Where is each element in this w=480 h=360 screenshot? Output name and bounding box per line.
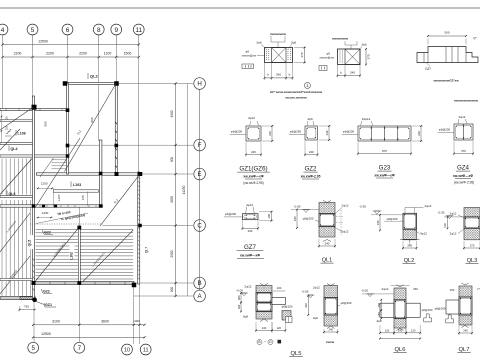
svg-text:5φ8: 5φ8 bbox=[243, 315, 248, 319]
leader GZ1 bbox=[36, 302, 44, 305]
svg-text:300: 300 bbox=[304, 303, 308, 308]
svg-text:QL6: QL6 bbox=[395, 347, 406, 353]
svg-text:G22: G22 bbox=[44, 231, 51, 235]
svg-text:2φ12: 2φ12 bbox=[342, 204, 349, 208]
label L102 bbox=[70, 245, 75, 258]
beam GZ1 bottom left bbox=[0, 297, 35, 299]
svg-text:3φ12: 3φ12 bbox=[420, 232, 427, 236]
grid line E right bbox=[140, 173, 193, 175]
plan right outer line bbox=[187, 84, 189, 297]
detail GZ wall cast right bbox=[338, 49, 361, 65]
QL6 masonry bottom bbox=[394, 319, 406, 328]
svg-text:(xw.xwΦ-2.95): (xw.xwΦ-2.95) bbox=[243, 181, 263, 185]
QL3 masonry bottom bbox=[464, 228, 480, 240]
dim line detail1b bbox=[338, 75, 361, 77]
svg-text:4φ12: 4φ12 bbox=[459, 115, 466, 119]
column on beam 206 a bbox=[42, 204, 45, 207]
grid stem to bubble 10 bbox=[133, 286, 135, 344]
svg-text:240: 240 bbox=[248, 229, 253, 233]
svg-text:φ6@200: φ6@200 bbox=[343, 130, 355, 134]
QL5R beam bbox=[324, 298, 338, 316]
svg-text:2φ12: 2φ12 bbox=[342, 230, 349, 234]
level mark bbox=[366, 294, 374, 297]
svg-text:L107: L107 bbox=[57, 194, 61, 201]
grid stem 4 bbox=[2, 35, 4, 45]
svg-text:φ6@200: φ6@200 bbox=[303, 217, 314, 221]
column at F/6 bbox=[66, 144, 70, 148]
dashed line y224 bbox=[30, 223, 103, 225]
left strip beam y120 bbox=[0, 120, 34, 122]
diagonal lower room a bbox=[36, 228, 79, 281]
diagonal left strip c bbox=[0, 256, 30, 294]
svg-text:2φ6: 2φ6 bbox=[361, 43, 367, 47]
svg-text:11: 11 bbox=[135, 27, 142, 34]
svg-text:xw.xwΦ—xΦ: xw.xwΦ—xΦ bbox=[243, 175, 263, 179]
QL5L masonry top bbox=[256, 286, 272, 293]
svg-text:11: 11 bbox=[143, 347, 149, 353]
svg-text:2φ6: 2φ6 bbox=[256, 41, 262, 45]
stair flight segment bbox=[40, 158, 54, 177]
column at F/9 bbox=[115, 144, 119, 148]
svg-text:900: 900 bbox=[90, 117, 94, 122]
grid bubble 5 bottom bbox=[28, 342, 39, 353]
QL6 left wing bbox=[380, 303, 394, 317]
beam left strip y279 bbox=[0, 279, 34, 281]
column at 8 stair bbox=[99, 204, 103, 208]
svg-text:QL5: QL5 bbox=[28, 240, 32, 247]
svg-text:165: 165 bbox=[81, 195, 85, 200]
grid bubble 4 top bbox=[0, 24, 8, 35]
wall grid 8 bbox=[99, 140, 102, 207]
svg-text:QL7: QL7 bbox=[459, 347, 470, 353]
column at E/9 bbox=[115, 172, 119, 176]
stair diagonal upper flight bbox=[65, 83, 117, 172]
QL6 dim total bbox=[380, 338, 420, 340]
svg-text:QL5: QL5 bbox=[291, 351, 302, 357]
svg-text:240: 240 bbox=[398, 328, 403, 332]
svg-text:3450: 3450 bbox=[170, 196, 174, 203]
svg-text:240: 240 bbox=[350, 71, 355, 75]
QL7 masonry top bbox=[459, 286, 472, 297]
small diagonal left strip bbox=[0, 129, 20, 150]
grid bubble 6 top bbox=[62, 24, 73, 35]
svg-text:2φ12: 2φ12 bbox=[245, 285, 252, 289]
svg-text:GZ7: GZ7 bbox=[244, 244, 257, 251]
svg-text:L106: L106 bbox=[18, 132, 26, 136]
svg-text:xw.xwΦ-2.95: xw.xwΦ-2.95 bbox=[301, 175, 321, 179]
bottom dim line segments bbox=[33, 324, 144, 326]
QL1 masonry top bbox=[319, 203, 335, 214]
svg-text:GZ1(GZ6): GZ1(GZ6) bbox=[239, 166, 267, 173]
grid stem 5 bbox=[32, 35, 34, 45]
grid line F bbox=[69, 144, 194, 146]
svg-text:G23: G23 bbox=[379, 165, 391, 172]
grid stem to bubble 5 bottom bbox=[33, 300, 35, 343]
QL5L small detail bbox=[286, 317, 293, 323]
dim 500 line bbox=[428, 35, 466, 37]
beam QL6 left strip bbox=[0, 195, 34, 197]
GZ cross bbox=[272, 48, 287, 63]
QL6 masonry top bbox=[394, 288, 406, 300]
rebar dashes left cell bbox=[267, 49, 291, 61]
svg-text:QL7: QL7 bbox=[145, 247, 149, 254]
section GZ2 bbox=[305, 126, 318, 140]
grid bubble 8 top bbox=[93, 24, 104, 35]
svg-text:QL2: QL2 bbox=[90, 74, 99, 79]
svg-text:GZ*: GZ* bbox=[425, 67, 431, 71]
column at C/7 bbox=[77, 226, 81, 230]
svg-text:10φ12: 10φ12 bbox=[362, 117, 371, 121]
level mark bbox=[307, 295, 315, 298]
column at H/6 bbox=[63, 81, 68, 86]
svg-text:240: 240 bbox=[407, 244, 412, 248]
sheet top border bbox=[0, 7, 480, 9]
svg-text:160: 160 bbox=[377, 312, 381, 317]
svg-text:160: 160 bbox=[237, 304, 241, 309]
svg-text:~: ~ bbox=[264, 340, 266, 344]
beam on line E bbox=[37, 173, 141, 175]
svg-text:φ6@200: φ6@200 bbox=[282, 305, 293, 309]
QL2 masonry bottom bbox=[403, 229, 417, 240]
svg-text:150: 150 bbox=[5, 125, 9, 130]
svg-text:370: 370 bbox=[300, 52, 304, 57]
grid bubble A bbox=[194, 290, 206, 302]
svg-text:(xw.xwΦ-2.95): (xw.xwΦ-2.95) bbox=[454, 181, 474, 185]
svg-text:φ6@200: φ6@200 bbox=[439, 128, 451, 132]
svg-text:7: 7 bbox=[78, 345, 82, 352]
svg-text:1230: 1230 bbox=[42, 211, 49, 215]
column GZ1 dot bbox=[32, 298, 37, 303]
grid stem 9 bbox=[115, 35, 117, 45]
wall hatch ticks grid 9 bbox=[115, 122, 117, 168]
svg-text:2900: 2900 bbox=[170, 250, 174, 257]
QL5R masonry bottom bbox=[324, 315, 338, 326]
beam QL2 on line H bbox=[65, 83, 118, 85]
svg-text:150: 150 bbox=[413, 287, 418, 291]
svg-text:3100: 3100 bbox=[52, 319, 60, 323]
bottom dim line total bbox=[33, 336, 144, 338]
svg-text:φ6@200: φ6@200 bbox=[225, 212, 237, 216]
svg-text:GZ1: GZ1 bbox=[45, 303, 52, 307]
svg-text:6: 6 bbox=[66, 27, 70, 34]
svg-text:14250: 14250 bbox=[182, 185, 186, 194]
svg-text:950: 950 bbox=[237, 295, 241, 300]
svg-text:2φ6: 2φ6 bbox=[313, 316, 318, 320]
dim line segments top bbox=[3, 56, 139, 58]
svg-text:9: 9 bbox=[114, 27, 118, 34]
QL5L beam upper bbox=[256, 293, 272, 303]
svg-text:240: 240 bbox=[309, 150, 314, 154]
svg-text:2100: 2100 bbox=[14, 52, 22, 56]
grid bubble 11 top bbox=[133, 24, 144, 35]
grid bubble H bbox=[194, 78, 206, 90]
svg-text:150: 150 bbox=[450, 288, 455, 292]
grid line 8 upper bbox=[98, 45, 100, 142]
QL7 beam bbox=[459, 297, 472, 315]
section GZ4 bbox=[454, 124, 473, 140]
leader GZ4 bbox=[438, 132, 454, 134]
svg-text:900: 900 bbox=[170, 287, 174, 293]
svg-text:2φ12: 2φ12 bbox=[313, 286, 320, 290]
svg-text:QL6: QL6 bbox=[9, 192, 16, 196]
detail lintel top right bbox=[417, 47, 478, 63]
tiny step glyph bbox=[6, 129, 11, 133]
svg-text:2200: 2200 bbox=[46, 52, 54, 56]
wall grid 5 bbox=[33, 96, 35, 300]
svg-text:12500: 12500 bbox=[38, 40, 48, 44]
stair note leader bbox=[36, 213, 88, 224]
leader G21 bbox=[230, 134, 246, 136]
beam L102 grid 7 bbox=[78, 227, 80, 283]
column at H/9 bbox=[114, 81, 119, 86]
svg-text:xw.xwΦ—xΦ: xw.xwΦ—xΦ bbox=[453, 174, 473, 178]
svg-text:180: 180 bbox=[293, 216, 297, 221]
svg-text:φ6@200: φ6@200 bbox=[387, 217, 398, 221]
QL2 beam bbox=[403, 213, 417, 229]
svg-text:5: 5 bbox=[31, 27, 35, 34]
level mark bbox=[373, 211, 382, 214]
wall grid 6 bbox=[67, 83, 69, 174]
svg-text:G22: G22 bbox=[43, 290, 50, 294]
svg-text:L103: L103 bbox=[73, 183, 81, 187]
svg-text:4900: 4900 bbox=[170, 110, 174, 117]
bearing ticks on beam y110 bbox=[6, 109, 62, 111]
column at C/11 bbox=[138, 224, 142, 228]
stair diagonal top left bbox=[0, 107, 34, 130]
column at B/10 bbox=[132, 283, 137, 288]
svg-text:500: 500 bbox=[444, 31, 449, 35]
bearing ticks on beam B bbox=[50, 282, 125, 285]
svg-text:240: 240 bbox=[276, 72, 281, 76]
detail GZ wall cast left bbox=[265, 48, 293, 63]
beam below H left bbox=[0, 109, 68, 111]
QL6 beam bbox=[394, 300, 406, 319]
QL7 small tee detail bbox=[446, 315, 454, 323]
dim line detail1a bbox=[265, 77, 293, 79]
grid bubble B bbox=[194, 277, 206, 289]
joist hatch left strip lower bbox=[2, 200, 31, 296]
column at 6 bbox=[66, 154, 70, 158]
dim line 1200 bbox=[37, 187, 54, 189]
svg-text:900: 900 bbox=[170, 157, 174, 163]
svg-text:-0.05: -0.05 bbox=[302, 290, 309, 294]
svg-text:240: 240 bbox=[325, 242, 330, 246]
joist hatch room mid bbox=[52, 160, 67, 169]
svg-text:3600: 3600 bbox=[101, 319, 109, 323]
svg-text:φ6@200: φ6@200 bbox=[341, 301, 352, 305]
svg-text:100: 100 bbox=[267, 213, 271, 218]
column at 5 stair bbox=[32, 204, 36, 208]
diagonal left strip b bbox=[0, 213, 30, 252]
svg-text:xwxwxwxw: xwxwxwxw bbox=[270, 32, 287, 36]
level mark bbox=[302, 210, 310, 213]
left edge dim line bbox=[1, 110, 3, 143]
QL6 top bracket bbox=[391, 285, 410, 287]
section GZ7 bbox=[242, 214, 258, 220]
QL7 left wing bbox=[446, 300, 459, 314]
grid line 11 upper bbox=[138, 45, 140, 173]
QL3 masonry top bbox=[464, 208, 480, 217]
diagonal left strip a bbox=[0, 159, 32, 195]
svg-text:xwxwxwxw: xwxwxwxw bbox=[332, 37, 349, 41]
QL6 small tee detail bbox=[424, 314, 432, 322]
beam on F in plan bbox=[0, 142, 34, 144]
GZ cross b bbox=[345, 49, 360, 65]
svg-text:-0.35: -0.35 bbox=[359, 205, 366, 209]
svg-text:φ6@250: φ6@250 bbox=[290, 130, 302, 134]
svg-text:xwxwxwxwGZ*xw: xwxwxwxwGZ*xw bbox=[433, 79, 459, 83]
legend box left bbox=[242, 64, 254, 69]
QL5L masonry bottom bbox=[256, 312, 272, 320]
column at E/8 bbox=[99, 172, 103, 176]
QL3 beam bbox=[464, 217, 480, 228]
svg-text:2φ6: 2φ6 bbox=[291, 41, 297, 45]
grid stem 6 bbox=[67, 35, 69, 45]
QL5L step masonry bbox=[282, 311, 291, 321]
svg-text:B: B bbox=[258, 340, 260, 344]
svg-text:800: 800 bbox=[44, 121, 48, 126]
column on beam 206 b bbox=[54, 204, 57, 207]
svg-text:C: C bbox=[197, 223, 202, 230]
svg-text:φ6@200: φ6@200 bbox=[231, 130, 243, 134]
level mark bbox=[240, 293, 248, 296]
grid line H right bbox=[118, 83, 194, 85]
caption square glyph bbox=[278, 340, 282, 344]
QL7 break marks bbox=[462, 283, 469, 328]
dim line 165 bbox=[87, 192, 89, 207]
label QL5 backing bbox=[28, 235, 33, 249]
svg-text:H: H bbox=[197, 81, 201, 88]
legend box right bbox=[319, 66, 327, 71]
svg-text:100: 100 bbox=[443, 223, 447, 228]
svg-text:2φ12: 2φ12 bbox=[425, 204, 432, 208]
QL5L step slab bbox=[272, 298, 285, 305]
svg-text:xwxwx@xw: xwxwx@xw bbox=[320, 56, 335, 60]
svg-text:QL1: QL1 bbox=[322, 258, 333, 264]
grid line 6 upper bbox=[67, 45, 69, 85]
svg-text:12500: 12500 bbox=[41, 332, 51, 336]
svg-text:8: 8 bbox=[97, 27, 101, 34]
svg-text:-0.05: -0.05 bbox=[361, 289, 368, 293]
leader G23 bbox=[342, 134, 358, 136]
section GZ1(GZ6) bbox=[246, 126, 261, 141]
hatched beam segment bbox=[20, 296, 34, 299]
svg-text:1100: 1100 bbox=[104, 52, 112, 56]
svg-text:GZ* xwxw.xwxwxwxwGZ*xwxCxwxwxw: GZ* xwxw.xwxwxwxwGZ*xwxCxwxwxw bbox=[270, 90, 323, 94]
svg-text:φ6@200: φ6@200 bbox=[422, 308, 433, 312]
column at B/7 bbox=[77, 281, 81, 285]
svg-text:2φ12: 2φ12 bbox=[450, 211, 457, 215]
wall hatch ticks grid 5 bbox=[33, 258, 35, 291]
svg-text:2φ12: 2φ12 bbox=[382, 287, 389, 291]
svg-text:100: 100 bbox=[277, 286, 282, 290]
dim line L107 bbox=[52, 188, 54, 206]
grid bubble F bbox=[194, 139, 206, 151]
bearing ticks on beam y206 bbox=[40, 205, 96, 207]
svg-text:QL3: QL3 bbox=[467, 258, 478, 264]
QL1 masonry bottom bbox=[319, 227, 335, 238]
grid line B right bbox=[134, 282, 193, 284]
diagonal lower room b bbox=[81, 230, 133, 284]
QL5L beam lower bbox=[256, 303, 272, 312]
svg-text:B: B bbox=[198, 280, 202, 287]
svg-text:240: 240 bbox=[463, 329, 468, 333]
QL1 break marks bbox=[323, 201, 331, 242]
stair diagonal lower flight bbox=[36, 138, 81, 207]
svg-text:-0.05: -0.05 bbox=[294, 205, 301, 209]
svg-text:240: 240 bbox=[329, 328, 334, 332]
svg-text:750: 750 bbox=[24, 304, 29, 308]
circled 1 bbox=[304, 82, 310, 88]
tiny dim line bbox=[5, 135, 12, 137]
QL5R masonry top bbox=[324, 286, 338, 298]
svg-text:240: 240 bbox=[417, 131, 421, 136]
beam L103 bbox=[53, 190, 98, 192]
beam on line B bbox=[34, 282, 135, 284]
grid line 7 lower bbox=[78, 208, 80, 343]
svg-text:E: E bbox=[198, 171, 202, 178]
column at B/5 bbox=[32, 281, 36, 285]
grid line 4 bbox=[2, 45, 4, 111]
wall hatch ticks grid 11 bbox=[138, 177, 140, 279]
grid line 9 upper bbox=[115, 45, 117, 85]
QL6 right wing bbox=[406, 303, 420, 317]
right dim line vertical bbox=[175, 84, 177, 297]
svg-text:5: 5 bbox=[31, 345, 35, 352]
svg-text:120: 120 bbox=[411, 328, 416, 332]
dim line GZ7 bottom bbox=[242, 227, 258, 229]
QL7 masonry bottom bbox=[459, 315, 472, 325]
caption B-D circles bbox=[257, 340, 273, 345]
leader GZ7 bbox=[224, 216, 243, 218]
level mark bbox=[446, 216, 454, 219]
svg-text:370: 370 bbox=[461, 149, 466, 153]
svg-text:4φ8: 4φ8 bbox=[376, 319, 381, 323]
svg-text:QL4: QL4 bbox=[11, 147, 18, 151]
right bubble connector line bbox=[199, 90, 201, 291]
column at 6 beam bbox=[66, 108, 70, 112]
svg-text:2200: 2200 bbox=[79, 52, 87, 56]
leader GZ2 bbox=[289, 134, 305, 136]
grid bubble 7 bottom bbox=[74, 342, 85, 353]
stair diagonal room E-C bbox=[100, 174, 140, 226]
joist hatch big lower room bbox=[36, 230, 134, 280]
QL2 top bracket bbox=[405, 208, 415, 213]
svg-text:4φ12: 4φ12 bbox=[248, 116, 255, 120]
svg-text:150: 150 bbox=[377, 302, 381, 307]
svg-text:1200: 1200 bbox=[41, 181, 48, 185]
svg-text:GZ2: GZ2 bbox=[304, 166, 317, 173]
svg-text:φ6@200: φ6@200 bbox=[435, 307, 446, 311]
svg-text:-0.05: -0.05 bbox=[236, 289, 243, 293]
svg-text:870: 870 bbox=[382, 149, 387, 153]
grid bubble 10 bottom bbox=[122, 344, 133, 355]
svg-text:370: 370 bbox=[367, 54, 371, 59]
QL6 break marks bbox=[397, 285, 404, 331]
grid bubble 9 top bbox=[111, 24, 122, 35]
svg-text:xw.xwΦ—xΦ: xw.xwΦ—xΦ bbox=[374, 174, 394, 178]
dashed QL1 h1 bbox=[336, 216, 344, 218]
svg-text:L102: L102 bbox=[70, 252, 74, 260]
wall grid 11 bbox=[138, 172, 140, 284]
svg-text:4φ6: 4φ6 bbox=[307, 117, 313, 121]
svg-text:170: 170 bbox=[470, 244, 475, 248]
grid stem 11 bbox=[138, 35, 140, 45]
joist hatch left strip upper bbox=[2, 159, 31, 195]
beam above stair y206 bbox=[0, 205, 103, 207]
grid stem 8 bbox=[98, 35, 100, 45]
beam y156 bbox=[0, 155, 68, 157]
